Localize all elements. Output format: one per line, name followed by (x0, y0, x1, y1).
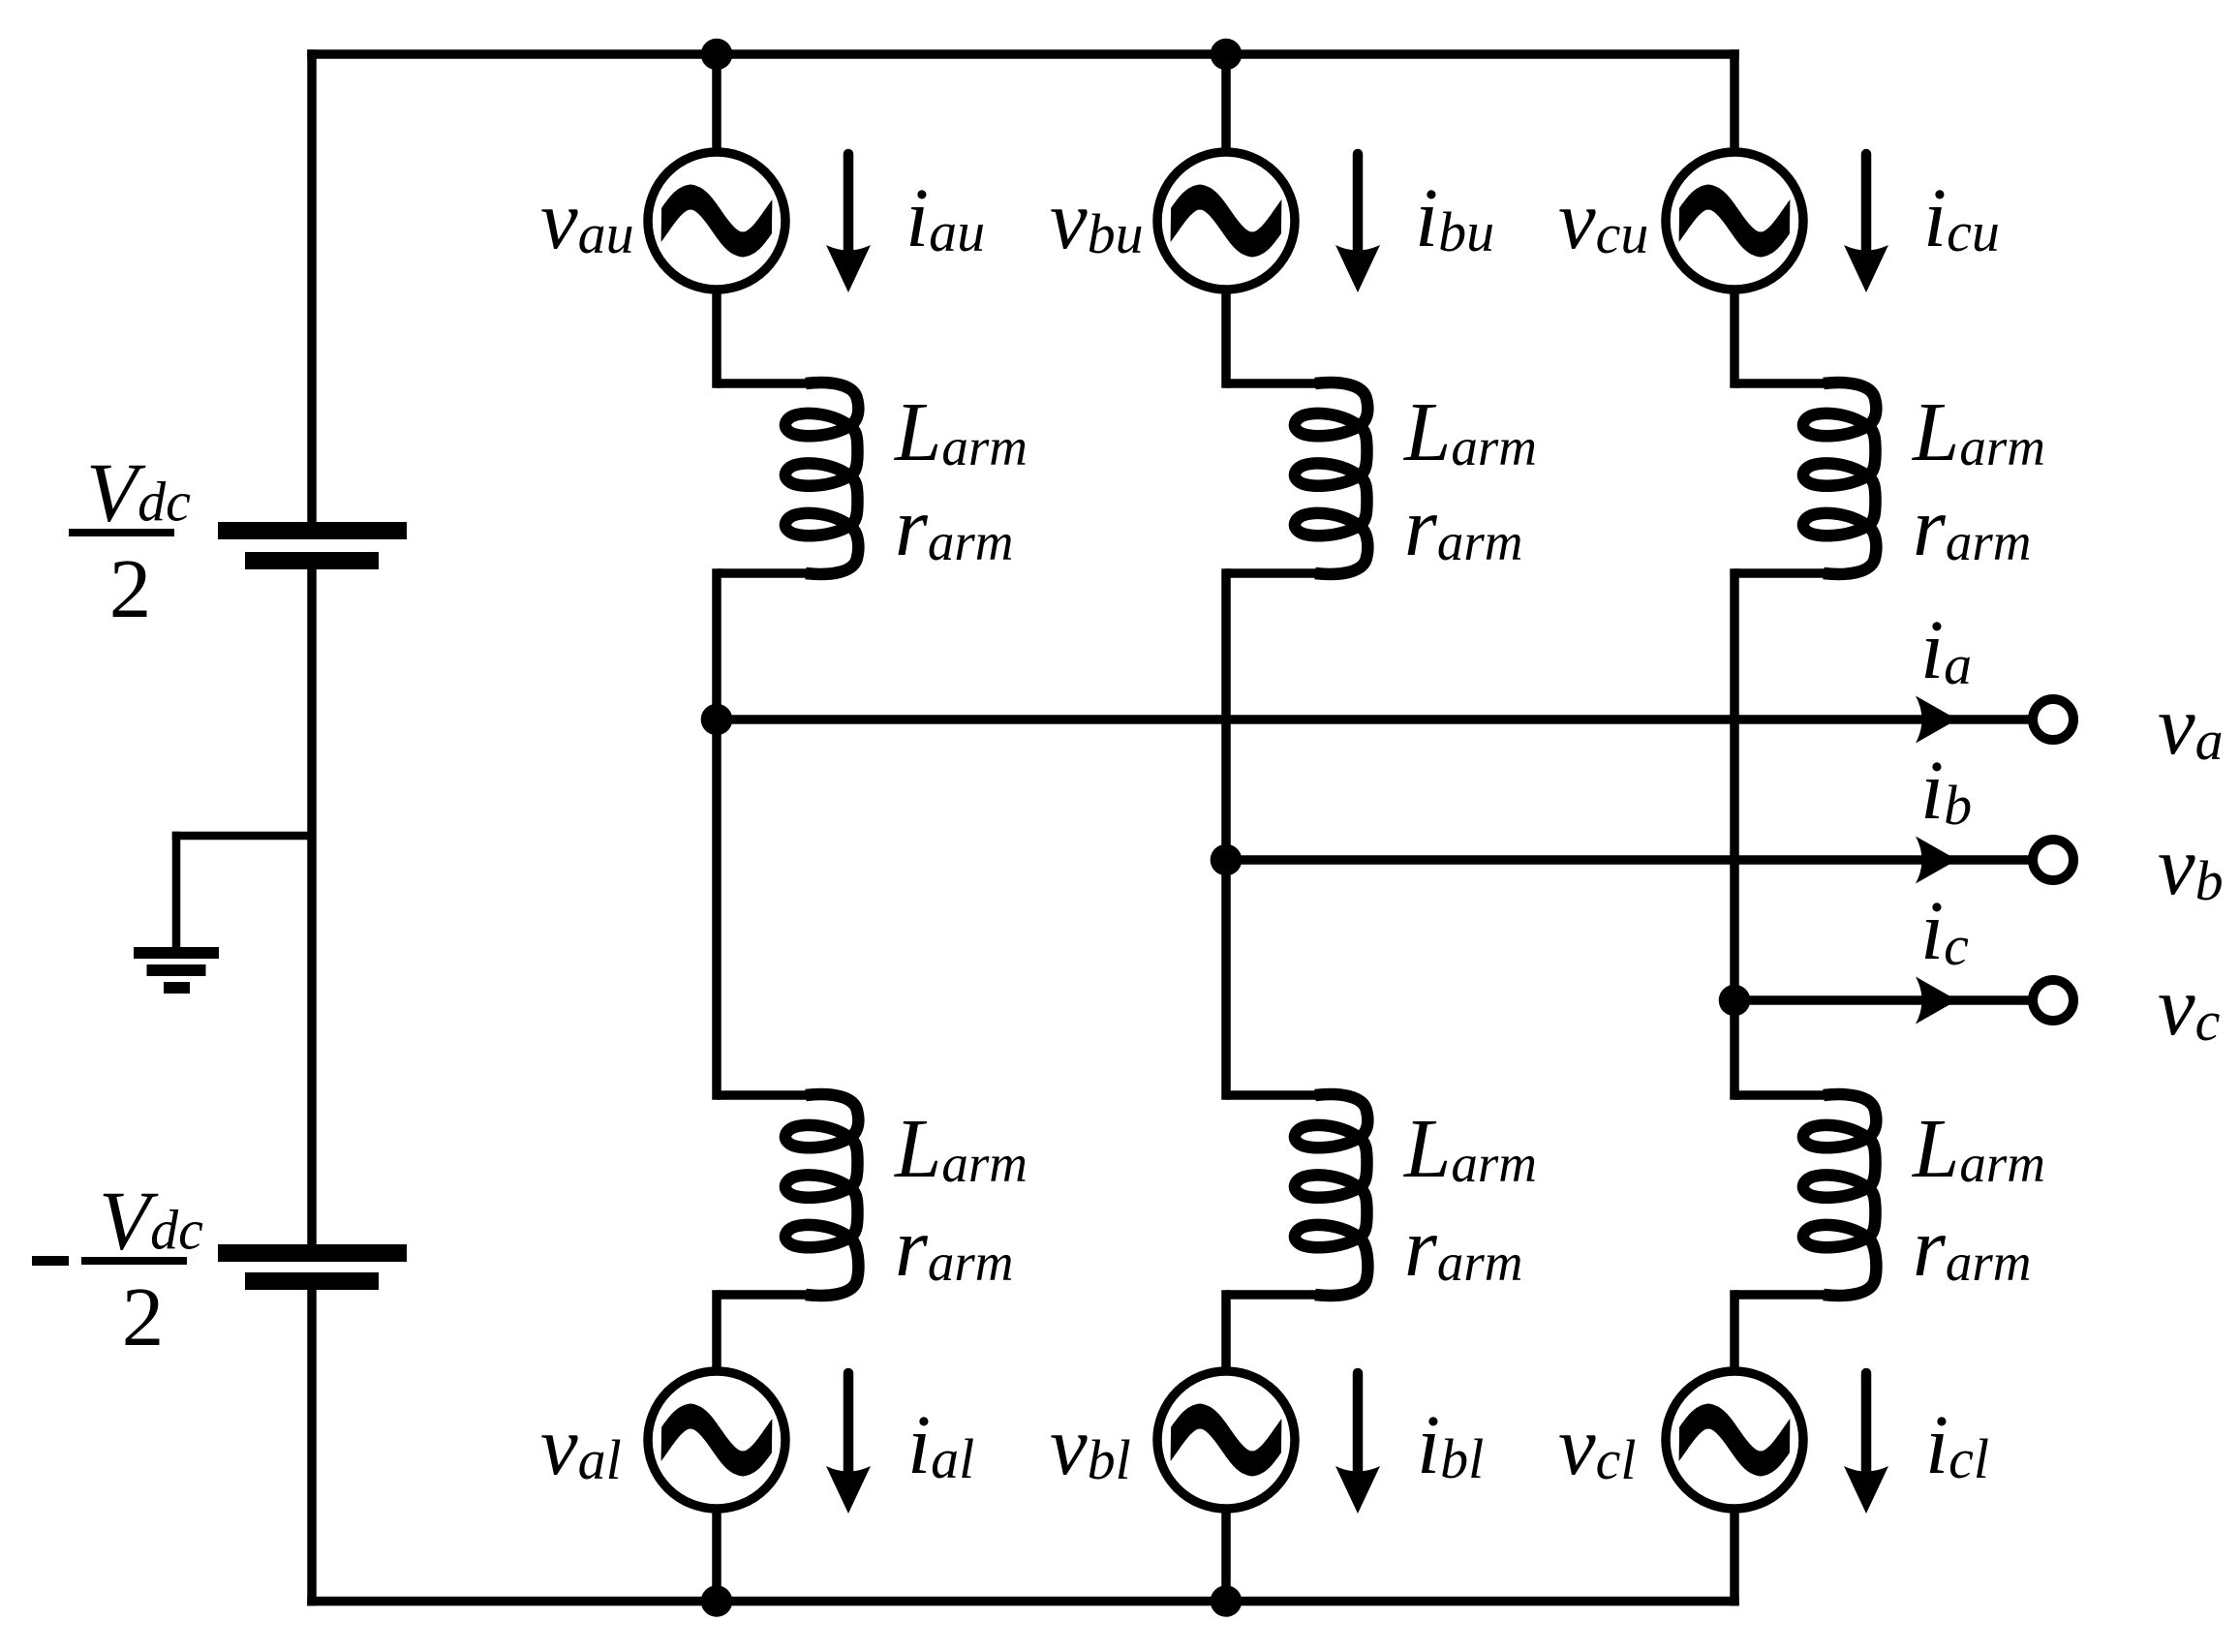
svg-text:2: 2 (109, 541, 152, 635)
svg-text:2: 2 (122, 1270, 165, 1363)
